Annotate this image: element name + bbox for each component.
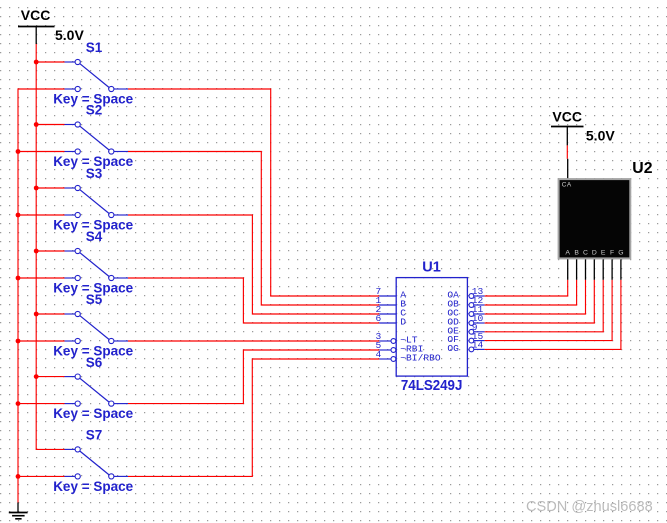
wire ground rail to S4 bottom throw (18, 277, 65, 279)
svg-text:Key = Space: Key = Space (53, 406, 133, 421)
wire S2 common to U1 pin 1 (B) (128, 152, 379, 306)
svg-text:4: 4 (376, 349, 382, 360)
pin 14 (OG) of U1 (447, 340, 484, 354)
svg-text:VCC: VCC (552, 108, 582, 124)
pin 10 (OD) of U1 (447, 313, 484, 327)
svg-text:14: 14 (472, 340, 484, 351)
pin 15 (OF) of U1 (447, 331, 484, 345)
wire ground rail to S5 bottom throw (18, 340, 65, 342)
junction rail-A S3 (16, 213, 21, 218)
switch S4 (SPDT, Key = Space) (65, 248, 129, 280)
7-segment display U2 body (559, 179, 631, 258)
pin 3 (~LT) of U1 (376, 331, 418, 345)
pin B of U2 (574, 250, 579, 280)
pin 1 (B) of U1 (376, 295, 407, 309)
pin 5 (~RBI) of U1 (376, 340, 424, 354)
svg-text:~BI/RBO: ~BI/RBO (400, 353, 441, 364)
pin 7 (A) of U1 (376, 286, 407, 300)
wire ground rail (bottom-throw bus) (18, 89, 65, 503)
svg-text:U2: U2 (632, 160, 652, 177)
svg-text:A: A (565, 250, 570, 257)
pin 9 (OE) of U1 (447, 322, 484, 336)
wire S1 common to U1 pin 7 (A) (128, 89, 379, 296)
junction rail-B S3 (34, 186, 39, 191)
svg-text:5.0V: 5.0V (586, 127, 615, 143)
wire U1 OF to display segment F (485, 280, 612, 341)
junction rail-A S5 (16, 339, 21, 344)
watermark CSDN @zhusl6688 (526, 500, 653, 515)
wire VCC rail to S2 top throw (36, 124, 64, 126)
wire VCC rail to S3 top throw (36, 187, 64, 189)
wire U1 OC to display segment C (485, 280, 586, 314)
svg-text:5.0V: 5.0V (55, 27, 84, 43)
power VCC (left) (18, 27, 55, 45)
svg-text:D: D (400, 317, 406, 328)
svg-text:E: E (601, 250, 606, 257)
wire U1 OB to display segment B (485, 280, 577, 305)
pin A of U2 (565, 250, 570, 280)
junction rail-A S7 (16, 474, 21, 479)
svg-text:OG: OG (447, 343, 459, 354)
svg-text:VCC: VCC (21, 7, 51, 23)
wire U1 OD to display segment D (485, 280, 595, 323)
junction rail-B S1 (34, 60, 39, 65)
svg-text:S7: S7 (86, 428, 103, 443)
svg-text:CA: CA (562, 182, 572, 189)
ground (9, 503, 28, 519)
wire VCC rail to S6 top throw (36, 376, 64, 378)
pin D of U2 (592, 250, 597, 280)
pin 11 (OC) of U1 (447, 304, 484, 318)
wire VCC to display CA (566, 145, 568, 158)
svg-text:G: G (618, 250, 623, 257)
wire S3 common to U1 pin 2 (C) (128, 215, 379, 314)
pin 12 (OB) of U1 (447, 295, 484, 309)
wire ground rail to S6 bottom throw (18, 403, 65, 405)
pin CA of U2 (562, 159, 572, 189)
pin 4 (~BI/RBO) of U1 (376, 349, 441, 363)
pin F of U2 (610, 250, 614, 280)
wire VCC rail to S5 top throw (36, 313, 64, 315)
wire ground rail to S3 bottom throw (18, 214, 65, 216)
svg-text:S6: S6 (86, 355, 103, 370)
junction rail-B S5 (34, 312, 39, 317)
svg-text:74LS249J: 74LS249J (401, 378, 463, 394)
junction rail-B S2 (34, 122, 39, 127)
junction rail-A S2 (16, 149, 21, 154)
wire S4 common to U1 pin 6 (D) (128, 278, 379, 323)
pin C of U2 (583, 250, 588, 280)
svg-text:D: D (592, 250, 597, 257)
junction rail-B S4 (34, 249, 39, 254)
switch S5 (SPDT, Key = Space) (65, 311, 129, 343)
switch S3 (SPDT, Key = Space) (65, 185, 129, 217)
wire S7 common to U1 pin 4 (~BI/RBO) (128, 359, 379, 476)
svg-text:B: B (574, 250, 579, 257)
junction rail-A S6 (16, 401, 21, 406)
pin 6 (D) of U1 (376, 313, 407, 327)
wire U1 OE to display segment E (485, 280, 604, 332)
wire ground rail to S7 bottom throw (18, 475, 65, 477)
power VCC (right) (551, 127, 584, 146)
switch S1 (SPDT, Key = Space) (65, 59, 129, 91)
wire VCC rail to S4 top throw (36, 250, 64, 252)
svg-text:U1: U1 (422, 260, 441, 276)
wire VCC rail to S1 top throw (36, 61, 64, 63)
pin 13 (OA) of U1 (447, 286, 484, 300)
wire ground rail to S2 bottom throw (18, 151, 65, 153)
svg-text:S5: S5 (86, 292, 103, 307)
svg-text:S1: S1 (86, 40, 103, 55)
IC U1 74LS249J body (396, 278, 467, 377)
junction rail-B S6 (34, 374, 39, 379)
switch S2 (SPDT, Key = Space) (65, 122, 129, 154)
svg-text:F: F (610, 250, 614, 257)
junction rail-A S4 (16, 276, 21, 281)
wire S5 common to U1 pin 3 (~LT) (128, 340, 379, 342)
svg-text:Key = Space: Key = Space (53, 479, 133, 494)
svg-text:S3: S3 (86, 166, 103, 181)
svg-text:C: C (583, 250, 588, 257)
pin G of U2 (618, 250, 623, 280)
switch S6 (SPDT, Key = Space) (65, 374, 129, 406)
wire VCC rail (top-throw bus) (36, 44, 64, 449)
svg-text:6: 6 (376, 313, 382, 324)
svg-text:S4: S4 (86, 229, 103, 244)
pin E of U2 (601, 250, 606, 280)
wire U1 OA to display segment A (485, 280, 568, 296)
switch S7 (SPDT, Key = Space) (65, 447, 129, 479)
pin 2 (C) of U1 (376, 304, 407, 318)
wire U1 OG to display segment G (485, 280, 621, 350)
svg-text:S2: S2 (86, 103, 103, 118)
wire S6 common to U1 pin 5 (~RBI) (128, 350, 379, 404)
